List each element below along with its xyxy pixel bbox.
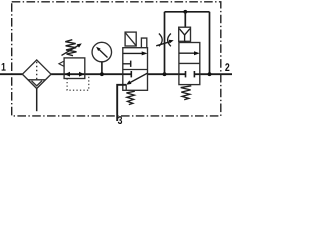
valve V2 division — [179, 62, 200, 64]
valve V1 blocked port top square — [123, 63, 131, 65]
wire valve V1 to valve V2 — [148, 73, 179, 75]
wire branch top — [165, 11, 210, 13]
gauge stem — [101, 62, 103, 74]
valve V1 return spring — [126, 91, 134, 104]
valve V2 blocked left stub — [179, 73, 186, 75]
wire exhaust to port 3 — [117, 85, 126, 121]
wire port1 to filter — [0, 73, 22, 75]
regulator pilot dotted line — [67, 75, 89, 90]
valve V1 blocked supply stub — [123, 73, 132, 75]
wire regulator flow path — [64, 73, 85, 75]
valve V1 detent — [141, 38, 146, 47]
wire branch up-left — [164, 12, 166, 74]
regulator right arrowhead — [79, 72, 84, 77]
regulator relief triangle — [59, 61, 64, 66]
valve V1 open path arrow — [123, 52, 144, 54]
check valve C1 seat — [179, 29, 190, 35]
node branch right — [208, 72, 212, 76]
node branch left — [163, 72, 167, 76]
port 1 label — [2, 63, 6, 71]
valve V1 exhaust inner drop — [125, 85, 127, 91]
wire branch down-right — [209, 12, 211, 74]
port 2 label — [225, 63, 229, 71]
valve V2 return spring — [181, 86, 192, 100]
filter drain line — [36, 89, 38, 112]
valve V1 exhaust diagonal — [128, 73, 147, 84]
check valve to V2 stub — [184, 41, 186, 42]
throttle TH1 arrow — [156, 42, 170, 46]
port 3 label — [118, 116, 122, 124]
regulator R1 body — [64, 58, 85, 79]
regulator adjustment arrow — [62, 45, 80, 55]
regulator spring — [65, 40, 76, 56]
valve V1 body (3/2 shut-off) — [123, 48, 148, 91]
wire filter to regulator — [51, 73, 64, 75]
node gauge junction — [100, 72, 104, 76]
gauge needle — [99, 50, 107, 58]
wire regulator to valve V1 — [85, 73, 123, 75]
gauge G1 — [92, 42, 112, 62]
valve V1 division — [123, 69, 148, 71]
check valve C1 box — [179, 27, 191, 41]
throttle TH1 arcs — [159, 34, 162, 47]
valve V2 body (soft start 2/2) — [179, 43, 200, 85]
regulator left arrowhead — [65, 72, 70, 77]
valve V1 manual actuator box — [125, 32, 136, 46]
enclosure dash-dot frame — [12, 2, 221, 116]
valve V2 blocked right stub — [194, 73, 199, 75]
wire tee to check valve — [184, 12, 186, 27]
valve V2 open path arrow — [179, 52, 196, 54]
filter F1 (with water separator) — [22, 60, 51, 89]
node check tee — [183, 10, 187, 14]
wire valve V2 to port 2 — [200, 73, 233, 75]
